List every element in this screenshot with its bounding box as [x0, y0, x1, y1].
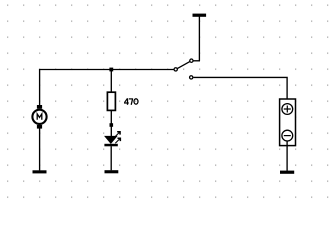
- LED arrow 1: [115, 132, 120, 137]
- motor letter M: [37, 114, 42, 120]
- plus sign: [284, 106, 291, 113]
- resistor value 470: digit 4: [124, 98, 129, 105]
- node junction between resistor and LED: [110, 123, 114, 127]
- motor bottom tab: [37, 125, 42, 129]
- ground (LED): [105, 170, 119, 173]
- node junction on rail above resistor: [109, 68, 113, 72]
- wire: switch throw B stub to power line: [193, 60, 200, 62]
- motor M1: [32, 105, 46, 129]
- battery plus terminal circle: [282, 104, 293, 115]
- battery B1: [280, 99, 296, 146]
- motor top tab: [37, 105, 42, 109]
- LED D1: [104, 132, 120, 147]
- motor body circle: [32, 110, 46, 124]
- ground (motor): [33, 170, 47, 173]
- wire: main top rail from motor corner to switch common: [40, 70, 174, 106]
- LED triangle (anode): [105, 136, 117, 143]
- ground (battery): [280, 171, 294, 174]
- minus sign: [284, 135, 291, 137]
- wire: resistor top lead: [110, 70, 112, 93]
- switch contact B (upper throw): [190, 59, 193, 62]
- wire: switch C to battery top: [193, 77, 287, 103]
- power supply symbol +V: [193, 14, 207, 61]
- switch contact C (lower throw): [190, 76, 193, 79]
- LED arrow 2: [115, 139, 120, 144]
- switch SW1 lever: [176, 61, 192, 70]
- wire: battery to ground: [286, 141, 288, 171]
- resistor value 470: digit 7: [129, 99, 133, 105]
- battery body: [280, 99, 296, 146]
- resistor value 470: digit 0: [134, 99, 138, 104]
- battery minus terminal circle: [282, 130, 293, 141]
- LED cathode bar: [104, 144, 117, 147]
- resistor R1 body: [107, 92, 115, 110]
- wire: resistor bottom to LED: [110, 110, 112, 137]
- wire: motor to ground: [39, 128, 41, 170]
- wire: LED to ground: [110, 146, 112, 170]
- switch contact A (common): [174, 68, 177, 71]
